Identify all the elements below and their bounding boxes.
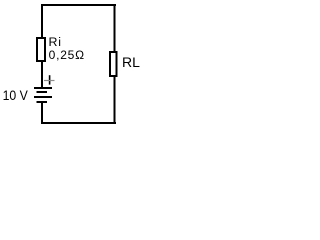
wire top: [41, 4, 116, 6]
svg-text:RL: RL: [122, 54, 140, 70]
wire left vertical (bottom): [41, 103, 43, 124]
wire right vertical (bottom): [114, 77, 116, 124]
wire bottom: [41, 122, 116, 124]
resistor RL: [110, 52, 117, 76]
battery V1 plates: [34, 87, 52, 89]
wire left vertical (middle): [41, 61, 43, 87]
battery V1 plus sign: [49, 75, 51, 84]
resistor Ri: [37, 38, 45, 61]
svg-text:0,25Ω: 0,25Ω: [49, 48, 85, 62]
wire right vertical (top): [114, 4, 116, 52]
svg-text:Ri: Ri: [49, 35, 62, 49]
svg-text:10 V: 10 V: [3, 87, 29, 103]
wire left vertical (top): [41, 4, 43, 37]
